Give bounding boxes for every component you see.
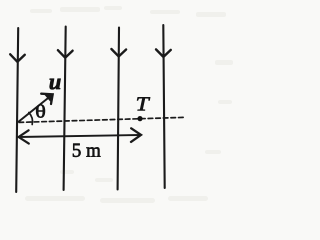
arrowhead on line 1 xyxy=(10,54,25,62)
dashed horizontal line through T xyxy=(19,117,184,122)
point T dot xyxy=(137,116,142,121)
label T xyxy=(137,97,150,110)
arrowhead on line 3 xyxy=(111,49,126,57)
left arrowhead of distance arrow xyxy=(19,130,29,143)
vertical field line 3 xyxy=(118,28,119,190)
arrowhead on line 2 xyxy=(58,50,73,58)
vertical field line 1 xyxy=(16,28,18,192)
paper background xyxy=(0,0,255,212)
right arrowhead of distance arrow xyxy=(131,128,141,142)
distance double arrow shaft xyxy=(19,135,141,137)
angle arc theta xyxy=(29,113,33,125)
label theta xyxy=(36,105,45,118)
label u xyxy=(50,79,61,90)
velocity vector u shaft xyxy=(19,95,53,122)
vertical field line 4 xyxy=(163,25,164,188)
faint scan smudges top xyxy=(25,6,233,203)
arrowhead of vector u xyxy=(41,94,53,104)
arrowhead on line 4 xyxy=(156,49,171,57)
vertical field line 2 xyxy=(64,27,66,191)
label 5 m xyxy=(73,144,101,157)
